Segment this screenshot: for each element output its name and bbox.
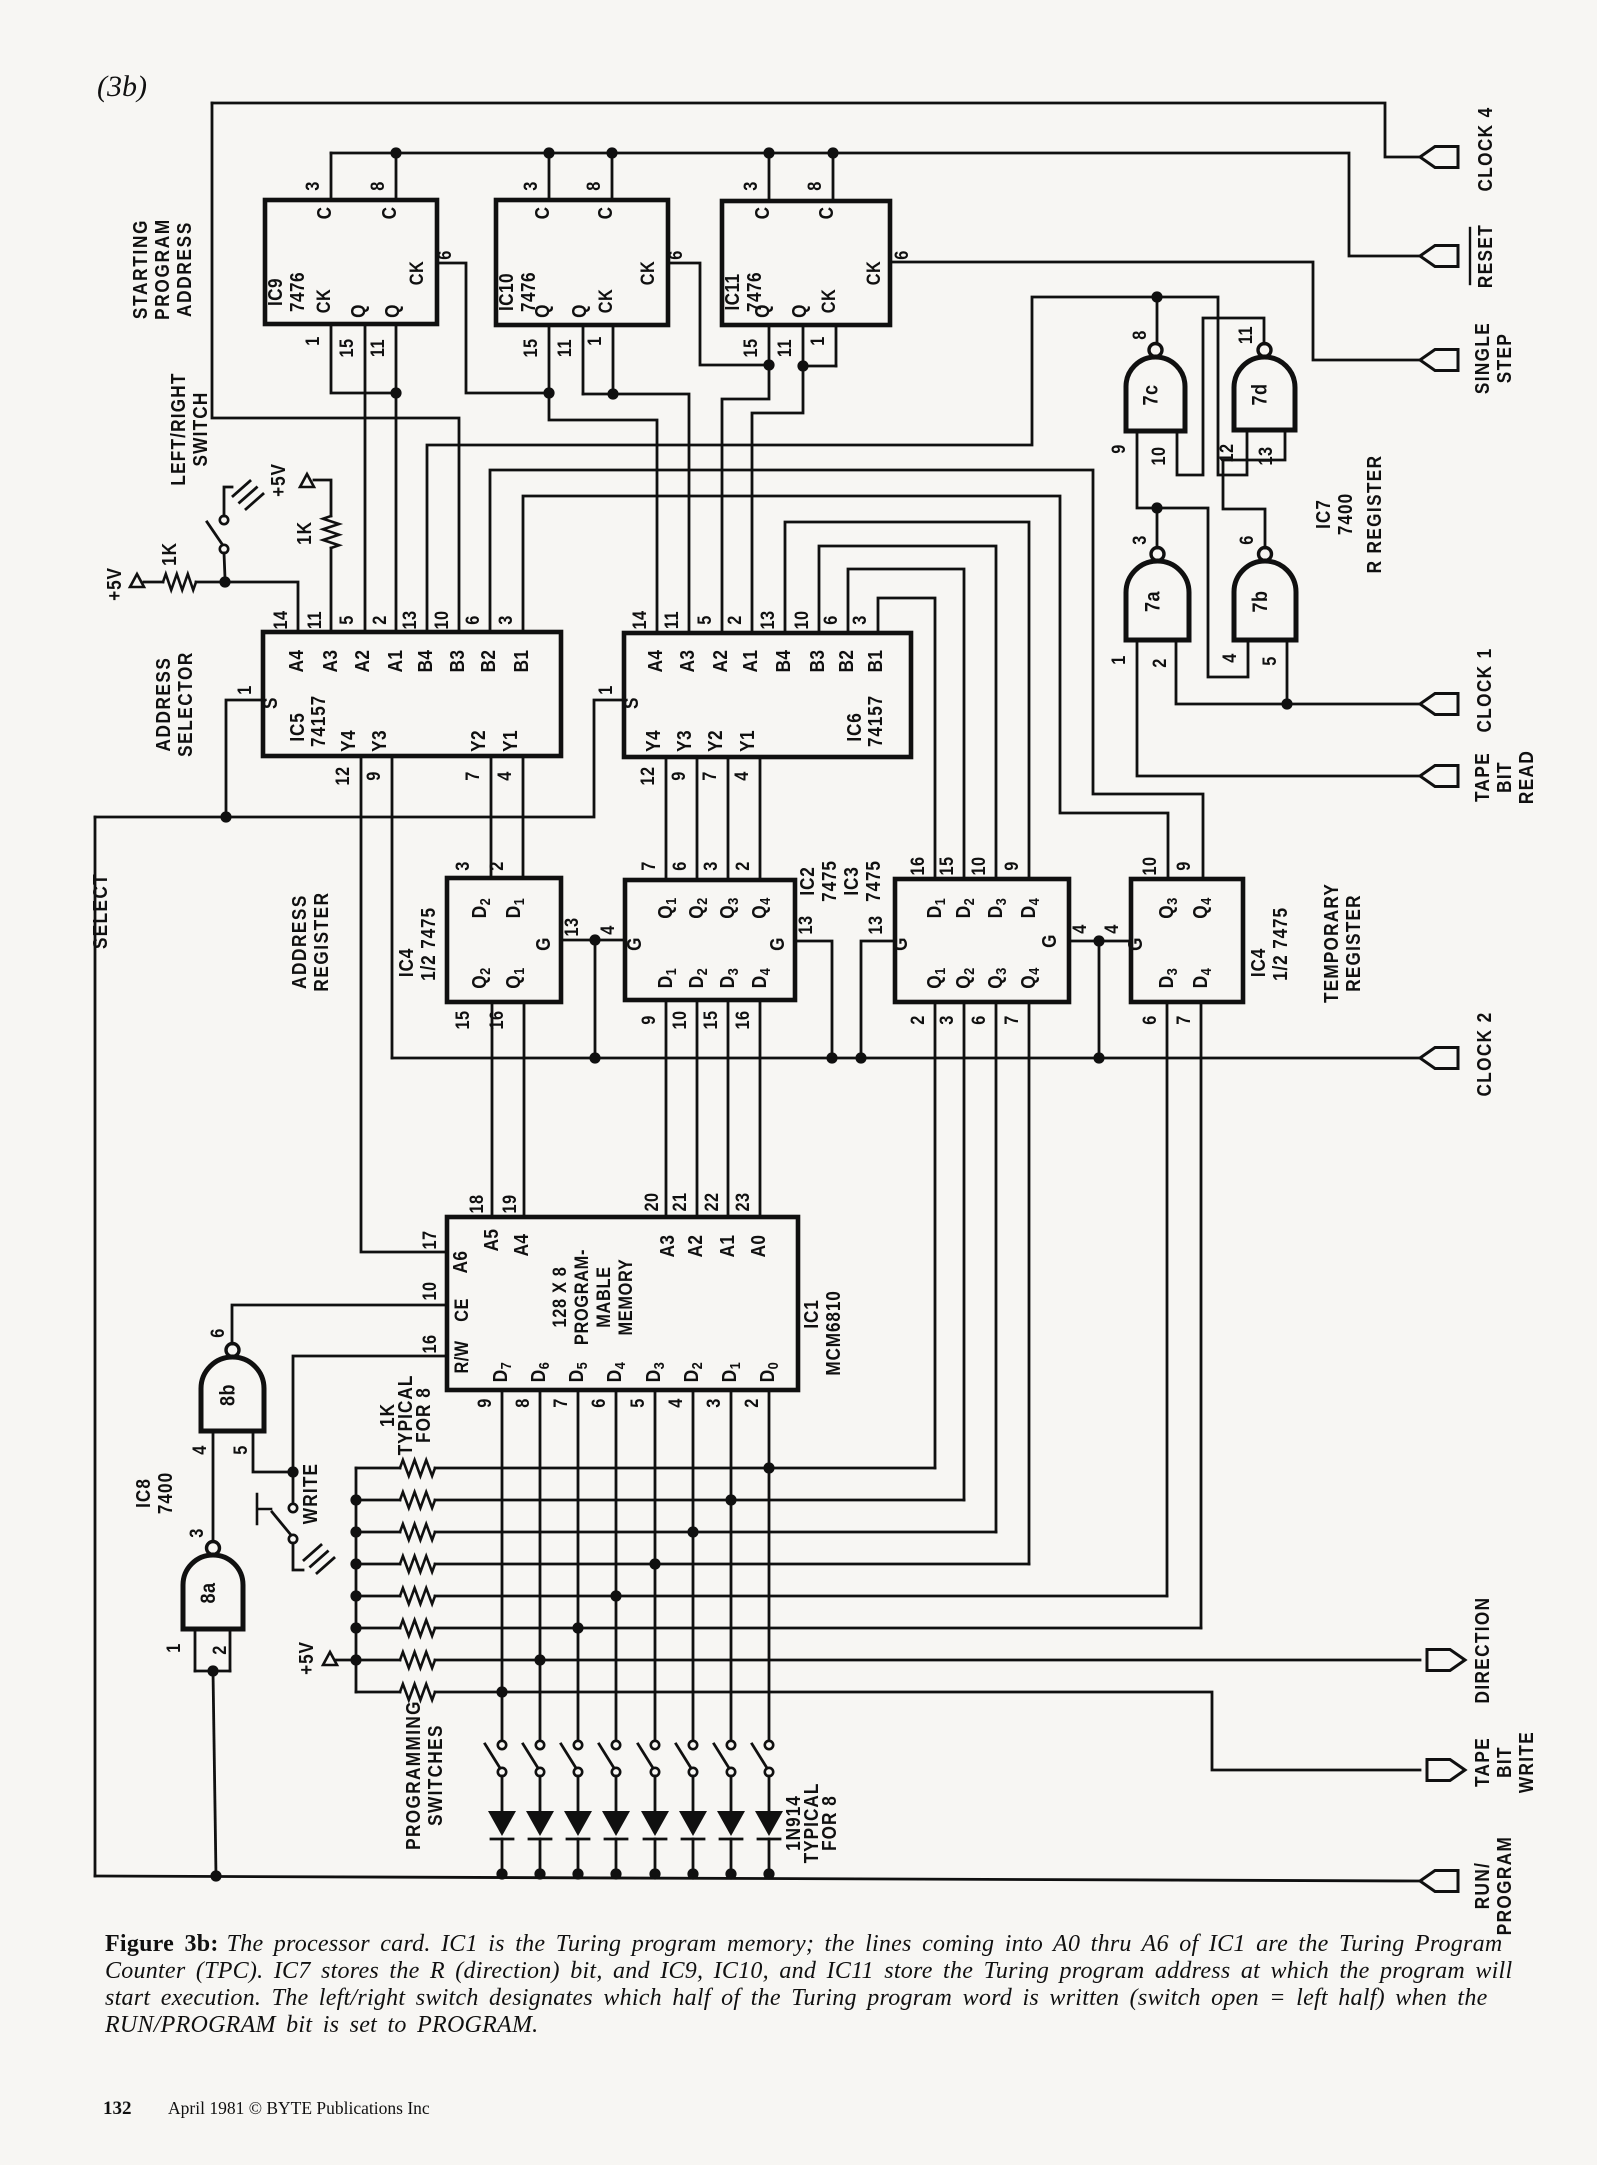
switch programming S6 xyxy=(561,1741,582,1776)
connector TAPE BIT WRITE xyxy=(1427,1731,1537,1793)
svg-text:3: 3 xyxy=(452,861,473,871)
svg-text:8: 8 xyxy=(804,181,825,191)
wire TAPE BIT READ to 7a.1 xyxy=(1137,640,1420,776)
svg-text:G: G xyxy=(623,937,646,951)
svg-text:D2: D2 xyxy=(680,1362,705,1382)
latch IC4 1/2 7475 temporary register xyxy=(1131,879,1243,1002)
svg-text:21: 21 xyxy=(669,1192,690,1211)
svg-text:74157: 74157 xyxy=(864,695,887,747)
svg-text:10: 10 xyxy=(431,610,452,629)
svg-text:Q2: Q2 xyxy=(685,897,710,918)
wire RUN/PROGRAM rail xyxy=(95,1876,1420,1881)
wire CLOCK 1 to 7a.2 and 7b.5 xyxy=(1176,640,1420,710)
wire 7a.3 to 7c.9 and 7b.4 xyxy=(1137,431,1248,677)
flip-flop IC10 7476 xyxy=(496,200,668,325)
svg-text:D3: D3 xyxy=(1155,968,1180,988)
svg-text:B4: B4 xyxy=(772,649,795,672)
svg-text:14: 14 xyxy=(629,610,650,629)
wire IC2 pin15 to IC1.A1 xyxy=(727,1000,730,1217)
wire IC6.Y4 to IC2 pin7 xyxy=(665,757,668,880)
svg-text:17: 17 xyxy=(419,1230,440,1249)
svg-text:CK: CK xyxy=(863,261,884,285)
wire G enable IC3/IC4 right xyxy=(1069,935,1131,1063)
svg-text:Y3: Y3 xyxy=(673,730,696,752)
diode D5 1N914 xyxy=(602,1776,630,1880)
svg-text:15: 15 xyxy=(452,1010,473,1029)
svg-text:15: 15 xyxy=(520,338,541,357)
svg-text:7400: 7400 xyxy=(1334,493,1357,535)
svg-text:1: 1 xyxy=(584,336,605,346)
svg-text:13: 13 xyxy=(795,915,816,934)
wire IC6.B2 to IC3 pin15 xyxy=(848,569,964,879)
svg-text:3: 3 xyxy=(849,615,870,625)
svg-text:D2: D2 xyxy=(952,898,977,918)
svg-text:19: 19 xyxy=(499,1194,520,1213)
wire IC5.Y2 to IC4.D2 xyxy=(490,756,493,878)
svg-text:3: 3 xyxy=(186,1528,207,1538)
svg-text:2: 2 xyxy=(486,861,507,871)
wire IC2 pin16 to IC1.A0 xyxy=(759,1000,762,1217)
svg-text:A2: A2 xyxy=(351,650,374,673)
svg-text:A4: A4 xyxy=(644,649,667,672)
svg-text:SWITCH: SWITCH xyxy=(189,391,212,466)
svg-text:C: C xyxy=(751,207,774,220)
wire IC1 D0 column xyxy=(763,1390,774,1741)
svg-text:12: 12 xyxy=(637,766,658,785)
wire IC11 pin8 stub xyxy=(827,147,838,201)
svg-text:A1: A1 xyxy=(716,1235,739,1258)
wire IC9 pin3 stub xyxy=(330,153,333,200)
svg-text:10: 10 xyxy=(1148,446,1169,465)
svg-text:REGISTER: REGISTER xyxy=(310,891,333,991)
svg-text:13: 13 xyxy=(399,610,420,629)
svg-text:IC3: IC3 xyxy=(840,866,863,895)
svg-text:REGISTER: REGISTER xyxy=(1342,894,1365,992)
wire IC1 D5 column xyxy=(572,1390,583,1741)
wire IC11 pin6 to SINGLE STEP xyxy=(890,262,1420,360)
wire IC10 Q1 junction to IC6.A4 xyxy=(543,325,657,633)
wire G enable IC3 left xyxy=(855,941,895,1064)
svg-text:Q1: Q1 xyxy=(502,967,527,988)
svg-text:13: 13 xyxy=(865,915,886,934)
svg-text:CLOCK 4: CLOCK 4 xyxy=(1474,106,1497,191)
svg-text:16: 16 xyxy=(419,1334,440,1353)
svg-text:D4: D4 xyxy=(1189,968,1214,988)
svg-text:2: 2 xyxy=(732,861,753,871)
svg-text:22: 22 xyxy=(701,1192,722,1211)
svg-text:4: 4 xyxy=(1069,924,1090,934)
svg-text:IC4: IC4 xyxy=(395,948,418,977)
svg-text:1: 1 xyxy=(807,336,828,346)
wire IC2 pin9 to IC1.A3 xyxy=(665,1000,668,1217)
diode D7 1N914 xyxy=(526,1776,554,1880)
switch programming S5 xyxy=(599,1741,620,1776)
diode D3 1N914 xyxy=(679,1776,707,1880)
svg-text:9: 9 xyxy=(1001,861,1022,871)
svg-text:Y1: Y1 xyxy=(736,730,759,752)
svg-text:RESET: RESET xyxy=(1474,224,1497,288)
svg-text:1: 1 xyxy=(163,1643,184,1653)
svg-text:Q2: Q2 xyxy=(952,967,977,988)
svg-text:PROGRAM: PROGRAM xyxy=(151,218,174,320)
svg-text:IC1: IC1 xyxy=(800,1299,823,1328)
svg-text:14: 14 xyxy=(270,610,291,629)
svg-text:IC8: IC8 xyxy=(132,1478,155,1508)
svg-text:TEMPORARY: TEMPORARY xyxy=(1320,883,1343,1003)
svg-text:D4: D4 xyxy=(748,968,773,988)
svg-text:15: 15 xyxy=(936,856,957,875)
svg-text:3: 3 xyxy=(1129,535,1150,545)
svg-text:Q1: Q1 xyxy=(654,897,679,918)
svg-text:2: 2 xyxy=(369,615,390,625)
svg-text:1: 1 xyxy=(595,685,616,695)
svg-text:3: 3 xyxy=(495,615,516,625)
svg-text:7476: 7476 xyxy=(286,272,309,312)
resistor R5 1K and data row 5 xyxy=(356,1588,1167,1604)
memory IC1 MCM6810 xyxy=(447,1217,798,1390)
svg-text:IC6: IC6 xyxy=(843,712,866,741)
svg-text:CLOCK 2: CLOCK 2 xyxy=(1473,1011,1496,1096)
svg-text:5: 5 xyxy=(694,615,715,625)
wire 8a.3 to 8b.4 xyxy=(212,1431,215,1541)
svg-text:3: 3 xyxy=(703,1398,724,1408)
svg-text:4: 4 xyxy=(494,771,515,781)
svg-text:5: 5 xyxy=(627,1398,648,1408)
svg-text:IC9: IC9 xyxy=(264,278,287,306)
svg-text:C: C xyxy=(594,207,617,220)
svg-text:10: 10 xyxy=(669,1010,690,1029)
svg-text:Y2: Y2 xyxy=(467,730,490,752)
switch programming S3 xyxy=(676,1741,697,1776)
connector SINGLE STEP xyxy=(1420,322,1515,394)
connector CLOCK 2 xyxy=(1420,1011,1495,1096)
wire IC9 Q2 to IC5.A1 xyxy=(395,324,398,632)
svg-text:Y4: Y4 xyxy=(642,730,665,752)
svg-text:SELECT: SELECT xyxy=(89,873,112,949)
svg-text:D4: D4 xyxy=(1017,898,1042,918)
svg-text:Q3: Q3 xyxy=(716,897,741,918)
svg-text:CK: CK xyxy=(595,289,616,313)
svg-text:8: 8 xyxy=(367,181,388,191)
diode D8 1N914 xyxy=(488,1776,516,1880)
wire IC6.Y1 to IC2 pin2 xyxy=(759,757,762,880)
svg-text:ADDRESS: ADDRESS xyxy=(173,221,196,317)
wire switch node to IC5.14 xyxy=(225,582,298,632)
svg-text:3: 3 xyxy=(302,181,323,191)
svg-text:7: 7 xyxy=(638,861,659,871)
svg-text:R/W: R/W xyxy=(451,1340,472,1373)
resistor R3 1K and data row 3 xyxy=(356,1524,996,1540)
svg-text:132: 132 xyxy=(103,2098,132,2119)
svg-text:FOR 8: FOR 8 xyxy=(818,1795,841,1851)
svg-text:11: 11 xyxy=(774,339,795,357)
svg-text:+5V: +5V xyxy=(103,567,126,601)
svg-text:6: 6 xyxy=(669,861,690,871)
wire IC6.B3 to IC3 pin10 xyxy=(819,546,996,879)
svg-text:7: 7 xyxy=(699,771,720,781)
svg-text:D5: D5 xyxy=(565,1362,590,1382)
svg-text:A3: A3 xyxy=(656,1235,679,1258)
svg-text:Q3: Q3 xyxy=(1155,897,1180,918)
svg-text:MEMORY: MEMORY xyxy=(615,1259,636,1336)
svg-text:A2: A2 xyxy=(684,1235,707,1258)
svg-text:B3: B3 xyxy=(446,650,469,673)
svg-text:SWITCHES: SWITCHES xyxy=(424,1724,447,1826)
op-amp 8b NAND xyxy=(201,1344,264,1432)
svg-text:6: 6 xyxy=(434,250,455,260)
svg-text:4: 4 xyxy=(1101,924,1122,934)
svg-text:Y4: Y4 xyxy=(337,730,360,752)
wire IC6.Y3 to IC2 pin6 xyxy=(696,757,699,880)
resistor R7 1K and data row 7 xyxy=(356,1652,1420,1668)
svg-text:RUN/PROGRAM bit is set to PROG: RUN/PROGRAM bit is set to PROGRAM. xyxy=(104,2012,538,2038)
svg-text:Q: Q xyxy=(788,304,811,318)
caption Figure 3b xyxy=(103,1931,1512,2119)
wire IC5.Y1 to IC4.D1 xyxy=(522,756,525,878)
op-amp 7b NAND xyxy=(1234,548,1296,641)
switch programming S8 xyxy=(485,1741,506,1776)
svg-text:C: C xyxy=(531,207,554,220)
svg-text:G: G xyxy=(1124,937,1147,951)
svg-text:DIRECTION: DIRECTION xyxy=(1471,1597,1494,1704)
connector DIRECTION xyxy=(1427,1597,1493,1704)
svg-text:Q: Q xyxy=(347,304,370,318)
svg-text:7475: 7475 xyxy=(818,860,841,902)
diode D4 1N914 xyxy=(641,1776,669,1880)
connector RESET xyxy=(1420,224,1496,288)
svg-text:A4: A4 xyxy=(285,649,308,672)
svg-text:6: 6 xyxy=(891,250,912,260)
svg-text:CE: CE xyxy=(451,1298,472,1322)
svg-text:5: 5 xyxy=(336,615,357,625)
switch programming S1 xyxy=(752,1741,773,1776)
svg-text:23: 23 xyxy=(732,1192,753,1211)
svg-text:A5: A5 xyxy=(480,1229,503,1252)
svg-text:11: 11 xyxy=(661,611,682,629)
flip-flop IC11 7476 xyxy=(722,201,890,325)
wire CLOCK 2 line xyxy=(392,1057,1420,1060)
svg-text:R REGISTER: R REGISTER xyxy=(1363,455,1386,574)
svg-text:7d: 7d xyxy=(1248,384,1272,406)
svg-text:1K: 1K xyxy=(158,542,181,566)
connector CLOCK 4 xyxy=(1420,106,1496,191)
svg-text:B1: B1 xyxy=(510,650,533,673)
connector TAPE BIT READ xyxy=(1420,750,1537,804)
wire IC3 pin2 to data row 1 xyxy=(934,1002,937,1468)
svg-text:11: 11 xyxy=(1235,326,1256,344)
svg-text:SELECTOR: SELECTOR xyxy=(174,651,197,757)
svg-text:(3b): (3b) xyxy=(97,70,147,103)
wire IC6.B4 to IC3 pin9 xyxy=(785,522,1029,879)
wire IC1 D2 column xyxy=(687,1390,698,1741)
wire IC1 D3 column xyxy=(649,1390,660,1741)
svg-text:A3: A3 xyxy=(319,650,342,673)
svg-text:PROGRAM-: PROGRAM- xyxy=(571,1249,592,1345)
wire IC5.B1 to IC4 pin10 (temp) xyxy=(523,496,1168,879)
svg-text:20: 20 xyxy=(641,1192,662,1211)
svg-text:CK: CK xyxy=(406,261,427,285)
op-amp 7a NAND xyxy=(1126,548,1189,641)
op-amp 7d NAND xyxy=(1234,344,1295,431)
svg-text:D1: D1 xyxy=(502,898,527,918)
wire G enable IC2 right xyxy=(795,941,838,1064)
svg-text:IC10: IC10 xyxy=(495,273,518,311)
svg-text:3: 3 xyxy=(936,1015,957,1025)
svg-text:CK: CK xyxy=(818,289,839,313)
svg-text:10: 10 xyxy=(791,610,812,629)
svg-text:C: C xyxy=(815,207,838,220)
svg-text:D2: D2 xyxy=(468,898,493,918)
wire +5V feed for pull-ups xyxy=(336,1468,362,1692)
svg-text:Figure 3b:The processor card.: Figure 3b:The processor card. IC1 is the… xyxy=(105,1931,1502,1957)
svg-text:6: 6 xyxy=(968,1015,989,1025)
wire IC1 D6 column xyxy=(534,1390,545,1741)
svg-text:D3: D3 xyxy=(984,898,1009,918)
wire IC11 pin3 stub xyxy=(763,147,774,201)
svg-text:2: 2 xyxy=(1149,658,1170,668)
svg-text:7a: 7a xyxy=(1141,590,1165,612)
wire IC6.B1 to IC3 pin16 xyxy=(878,598,935,879)
diode D2 1N914 xyxy=(717,1776,745,1880)
svg-text:D4: D4 xyxy=(603,1362,628,1382)
switch programming S4 xyxy=(638,1741,659,1776)
svg-text:D0: D0 xyxy=(756,1362,781,1382)
svg-text:13: 13 xyxy=(757,610,778,629)
svg-text:4: 4 xyxy=(665,1398,686,1408)
svg-text:8: 8 xyxy=(583,181,604,191)
diode D6 1N914 xyxy=(564,1776,592,1880)
svg-text:7b: 7b xyxy=(1249,591,1273,613)
svg-text:STARTING: STARTING xyxy=(129,219,152,319)
svg-text:Y1: Y1 xyxy=(499,730,522,752)
switch programming S2 xyxy=(714,1741,735,1776)
svg-text:IC11: IC11 xyxy=(721,273,744,310)
svg-text:11: 11 xyxy=(554,339,575,357)
svg-text:PROGRAMMING: PROGRAMMING xyxy=(402,1700,425,1850)
svg-text:6: 6 xyxy=(588,1398,609,1408)
wire IC11 Q1 junction to IC6.A2 xyxy=(722,325,775,633)
wire SELECT line xyxy=(95,700,624,1876)
svg-text:Q4: Q4 xyxy=(1017,967,1042,988)
svg-text:9: 9 xyxy=(1108,444,1129,454)
wire IC3 pin6 to data row 3 xyxy=(995,1002,998,1532)
latch IC3 7475 xyxy=(895,879,1069,1002)
switch WRITE pushbutton xyxy=(257,1494,303,1570)
svg-text:Q4: Q4 xyxy=(748,897,773,918)
svg-text:2: 2 xyxy=(209,1645,230,1655)
wire 8a inputs tied to RUN/PROGRAM xyxy=(195,1629,230,1882)
wire IC9 Q1 to IC5.A2 xyxy=(364,324,367,632)
resistor R1 1K and data row 1 xyxy=(356,1460,935,1476)
svg-text:IC4: IC4 xyxy=(1247,948,1270,977)
svg-text:4: 4 xyxy=(731,771,752,781)
latch IC4 1/2 7475 address register xyxy=(447,878,561,1002)
svg-text:16: 16 xyxy=(486,1010,507,1029)
connector RUN/PROGRAM xyxy=(1420,1836,1515,1935)
svg-text:B2: B2 xyxy=(477,650,500,673)
wire IC1 D1 column xyxy=(725,1390,736,1741)
svg-text:CK: CK xyxy=(313,289,334,313)
svg-text:1: 1 xyxy=(234,685,255,695)
svg-text:BIT: BIT xyxy=(1493,1746,1516,1778)
ground at left/right switch xyxy=(233,481,263,509)
svg-text:11: 11 xyxy=(367,339,388,357)
svg-text:A1: A1 xyxy=(384,650,407,673)
svg-text:IC2: IC2 xyxy=(796,866,819,895)
wire RESET rail (C pins of IC9-IC11) xyxy=(331,153,1420,256)
resistor R8 1K and data row 8 xyxy=(356,1684,1420,1770)
svg-text:15: 15 xyxy=(700,1010,721,1029)
svg-text:15: 15 xyxy=(740,338,761,357)
wire IC4 pin6 to data row 5 xyxy=(1166,1002,1169,1596)
svg-text:74157: 74157 xyxy=(307,695,330,747)
svg-text:D3: D3 xyxy=(642,1362,667,1382)
svg-text:1/2 7475: 1/2 7475 xyxy=(417,907,440,981)
svg-text:8: 8 xyxy=(512,1398,533,1408)
svg-text:SINGLE: SINGLE xyxy=(1471,322,1494,394)
svg-text:8a: 8a xyxy=(197,1582,221,1604)
wire IC9 CK1-Q2 tie xyxy=(331,324,402,399)
power +5V left xyxy=(103,567,144,601)
svg-text:D1: D1 xyxy=(923,898,948,918)
svg-text:A1: A1 xyxy=(739,650,762,673)
svg-text:Q1: Q1 xyxy=(923,967,948,988)
resistor 1K second pull-up xyxy=(293,480,339,632)
svg-text:B2: B2 xyxy=(835,650,858,673)
wire 8b.5 to WRITE node xyxy=(253,1356,447,1504)
ground at WRITE switch xyxy=(304,1545,334,1573)
wire IC5.Y3 to clock2 line xyxy=(391,756,394,1058)
svg-text:D1: D1 xyxy=(718,1362,743,1382)
wire IC1 D7 column xyxy=(496,1390,507,1741)
svg-text:D6: D6 xyxy=(527,1362,552,1382)
svg-text:1: 1 xyxy=(302,336,323,346)
svg-text:MCM6810: MCM6810 xyxy=(822,1290,845,1375)
svg-text:3: 3 xyxy=(520,181,541,191)
svg-text:April 1981 © BYTE Publications: April 1981 © BYTE Publications Inc xyxy=(168,2098,430,2118)
diode D1 1N914 xyxy=(755,1776,783,1880)
power +5V ladder xyxy=(295,1641,337,1675)
svg-text:start execution. The left/righ: start execution. The left/right switch d… xyxy=(105,1985,1488,2011)
svg-text:TAPE: TAPE xyxy=(1471,1737,1494,1787)
svg-text:Q: Q xyxy=(568,304,591,318)
wire 7d.11 to 7c.10 xyxy=(1177,318,1264,475)
svg-text:8b: 8b xyxy=(216,1384,240,1406)
svg-text:3: 3 xyxy=(700,861,721,871)
svg-text:G: G xyxy=(1038,934,1061,948)
svg-text:12: 12 xyxy=(332,766,353,785)
svg-text:Q: Q xyxy=(531,304,554,318)
svg-text:RUN/: RUN/ xyxy=(1471,1862,1494,1910)
wire IC10 pin3 stub xyxy=(543,147,554,200)
svg-text:16: 16 xyxy=(907,856,928,875)
svg-text:A0: A0 xyxy=(747,1235,770,1258)
svg-text:CLOCK 1: CLOCK 1 xyxy=(1473,647,1496,732)
svg-text:4: 4 xyxy=(1219,653,1240,663)
svg-text:4: 4 xyxy=(597,925,618,935)
svg-text:1/2 7475: 1/2 7475 xyxy=(1269,907,1292,981)
svg-text:6: 6 xyxy=(665,250,686,260)
svg-text:BIT: BIT xyxy=(1493,761,1516,793)
svg-text:7475: 7475 xyxy=(862,860,885,902)
svg-text:G: G xyxy=(766,937,789,951)
svg-text:A2: A2 xyxy=(709,650,732,673)
svg-text:4: 4 xyxy=(189,1445,210,1455)
svg-text:D2: D2 xyxy=(685,968,710,988)
svg-text:9: 9 xyxy=(638,1015,659,1025)
switch programming S7 xyxy=(523,1741,544,1776)
svg-text:FOR 8: FOR 8 xyxy=(412,1387,435,1443)
